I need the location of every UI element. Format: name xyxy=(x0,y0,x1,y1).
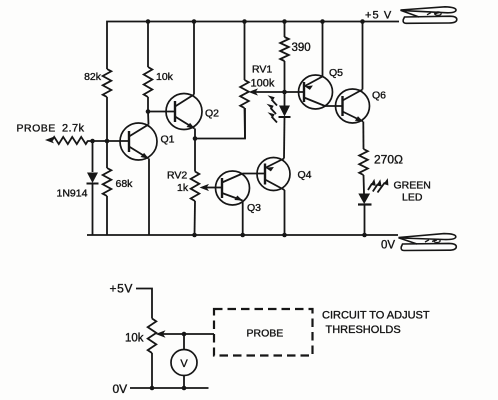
alligator clip +5V xyxy=(401,7,457,24)
LED green xyxy=(358,194,372,205)
transistor Q2 xyxy=(166,94,202,130)
voltmeter V xyxy=(171,350,197,376)
junction top rail Q5 xyxy=(320,19,325,24)
junction 0V RV2 xyxy=(192,233,197,238)
svg-text:Q2: Q2 xyxy=(205,108,219,120)
junction RV1 wiper node xyxy=(282,90,287,95)
junction Q2 emitter node xyxy=(193,136,198,141)
svg-text:0V: 0V xyxy=(381,240,395,252)
wire 1N914 to 0V rail xyxy=(92,184,94,236)
svg-text:LED: LED xyxy=(402,192,423,204)
wire red LED to Q4 emitter xyxy=(283,117,286,159)
transistor Q1 xyxy=(120,123,157,160)
svg-text:PROBE: PROBE xyxy=(247,328,284,340)
potentiometer RV2 1k xyxy=(191,172,200,202)
wire 0V bottom rail xyxy=(87,234,398,236)
potentiometer 10k lower xyxy=(148,319,157,354)
wire Q3 emitter to 0V xyxy=(242,201,244,236)
junction top rail 10k xyxy=(146,19,151,24)
svg-text:270Ω: 270Ω xyxy=(374,153,403,167)
svg-text:100k: 100k xyxy=(251,78,275,90)
transistor Q5 xyxy=(299,75,333,109)
junction Q1 collector node xyxy=(146,109,151,114)
wire Q2 collector to +5V xyxy=(193,22,195,95)
junction top rail Q6 xyxy=(360,19,365,24)
wire rail to 10k xyxy=(147,22,149,68)
wire green LED to 0V xyxy=(364,205,366,236)
svg-text:Q1: Q1 xyxy=(161,134,175,146)
RV1 wiper arrow xyxy=(249,88,259,95)
resistor 82k xyxy=(103,69,112,97)
svg-text:10k: 10k xyxy=(156,71,174,83)
svg-text:10k: 10k xyxy=(125,333,144,345)
junction 0V Q3 emitter xyxy=(240,233,245,238)
svg-text:1N914: 1N914 xyxy=(57,188,88,200)
resistor 10k xyxy=(144,67,153,97)
junction wiper voltmeter node xyxy=(182,332,187,337)
junction top rail RV1 xyxy=(242,19,247,24)
wire RV1 wiper to Q5 base xyxy=(255,91,304,93)
wire 82k to base node xyxy=(106,97,108,141)
transistor Q3 xyxy=(216,171,250,205)
wire Q5 emitter to +5V xyxy=(322,22,324,77)
wire RV1 to corner xyxy=(244,108,247,139)
svg-text:390: 390 xyxy=(292,42,311,54)
svg-text:Q6: Q6 xyxy=(372,90,386,102)
wire base node to 68k xyxy=(106,141,108,168)
resistor 270 ohm xyxy=(359,149,368,175)
junction 0V green LED xyxy=(362,233,367,238)
junction 0V voltmeter xyxy=(182,386,187,391)
wire node to 1N914 xyxy=(92,141,94,172)
wire wiper to probe box xyxy=(163,333,214,335)
alligator clip 0V xyxy=(399,234,457,251)
wire left column top xyxy=(107,22,108,70)
junction 0V pot xyxy=(150,386,155,391)
wire +5V to pot top xyxy=(136,289,152,319)
junction top rail Q2 collector xyxy=(192,19,197,24)
wire node down to RV2 xyxy=(194,139,196,172)
wire 68k to 0V rail xyxy=(106,196,108,235)
LED red indicator xyxy=(279,106,291,118)
wire Q5 collector to Q6 base xyxy=(325,105,343,107)
svg-text:RV2: RV2 xyxy=(167,170,187,182)
wire 390 to wiper node xyxy=(284,61,286,92)
wire 0V lower rail xyxy=(130,387,209,389)
wire pot to 0V lower xyxy=(151,353,153,388)
wire 10k to node xyxy=(147,97,149,112)
transistor Q4 xyxy=(257,158,290,191)
resistor 68k xyxy=(103,168,112,196)
wire node to RV1 bottom xyxy=(195,108,245,139)
junction top rail 390 xyxy=(282,19,287,24)
svg-text:0V: 0V xyxy=(113,382,128,396)
wire Q6 collector to +5V xyxy=(362,22,364,90)
wire voltmeter to 0V xyxy=(183,376,185,389)
svg-text:PROBE: PROBE xyxy=(17,123,56,135)
resistor 2.7k probe xyxy=(52,137,88,144)
svg-text:+5V: +5V xyxy=(110,282,134,296)
LED red arrows xyxy=(267,95,278,122)
wire 270 to green LED xyxy=(363,175,366,194)
resistor 390 xyxy=(280,37,289,61)
wire Q1 emitter to 0V xyxy=(148,159,150,236)
svg-text:GREEN: GREEN xyxy=(394,180,431,192)
svg-text:Q3: Q3 xyxy=(247,202,261,214)
svg-text:68k: 68k xyxy=(116,178,134,190)
svg-text:Q5: Q5 xyxy=(329,67,343,79)
RV2 wiper arrow xyxy=(200,184,210,191)
junction 82k-68k node xyxy=(105,139,110,144)
svg-text:THRESHOLDS: THRESHOLDS xyxy=(326,324,401,336)
svg-text:V: V xyxy=(180,358,188,370)
potentiometer RV1 100k xyxy=(240,80,249,108)
probe box dashed xyxy=(214,309,313,356)
junction 0V Q4 xyxy=(282,233,287,238)
svg-text:82k: 82k xyxy=(84,71,102,83)
wire Q2 emitter down xyxy=(194,129,196,139)
LED green arrows xyxy=(368,178,388,192)
diode 1N914 xyxy=(87,173,99,184)
pot wiper arrow lower xyxy=(156,330,166,337)
svg-text:+5 V: +5 V xyxy=(365,10,392,22)
wire RV2 wiper to Q3 base xyxy=(206,187,222,189)
wire rail to RV1 xyxy=(244,22,246,81)
svg-text:1k: 1k xyxy=(177,182,189,194)
transistor Q6 xyxy=(336,89,370,123)
wire +5V top rail xyxy=(108,21,399,23)
svg-text:CIRCUIT TO ADJUST: CIRCUIT TO ADJUST xyxy=(322,310,430,322)
probe arrow tip xyxy=(45,137,54,144)
wire Q3 collector to Q4 base xyxy=(243,173,266,175)
wire Q1 collector xyxy=(147,112,150,125)
wire probe to Q1 base xyxy=(88,140,130,142)
wire Q6 emitter to 270 xyxy=(362,122,364,150)
wire RV2 to 0V rail xyxy=(194,201,197,235)
svg-text:RV1: RV1 xyxy=(252,64,272,76)
wire node to red LED xyxy=(284,92,286,106)
wire node to voltmeter xyxy=(183,334,185,350)
svg-text:Q4: Q4 xyxy=(298,169,312,181)
wire rail to 390 xyxy=(284,22,286,38)
junction diode node xyxy=(90,139,95,144)
svg-text:2.7k: 2.7k xyxy=(62,123,84,135)
wire Q4 collector to 0V xyxy=(284,190,286,235)
wire node to Q2 base xyxy=(148,111,175,113)
